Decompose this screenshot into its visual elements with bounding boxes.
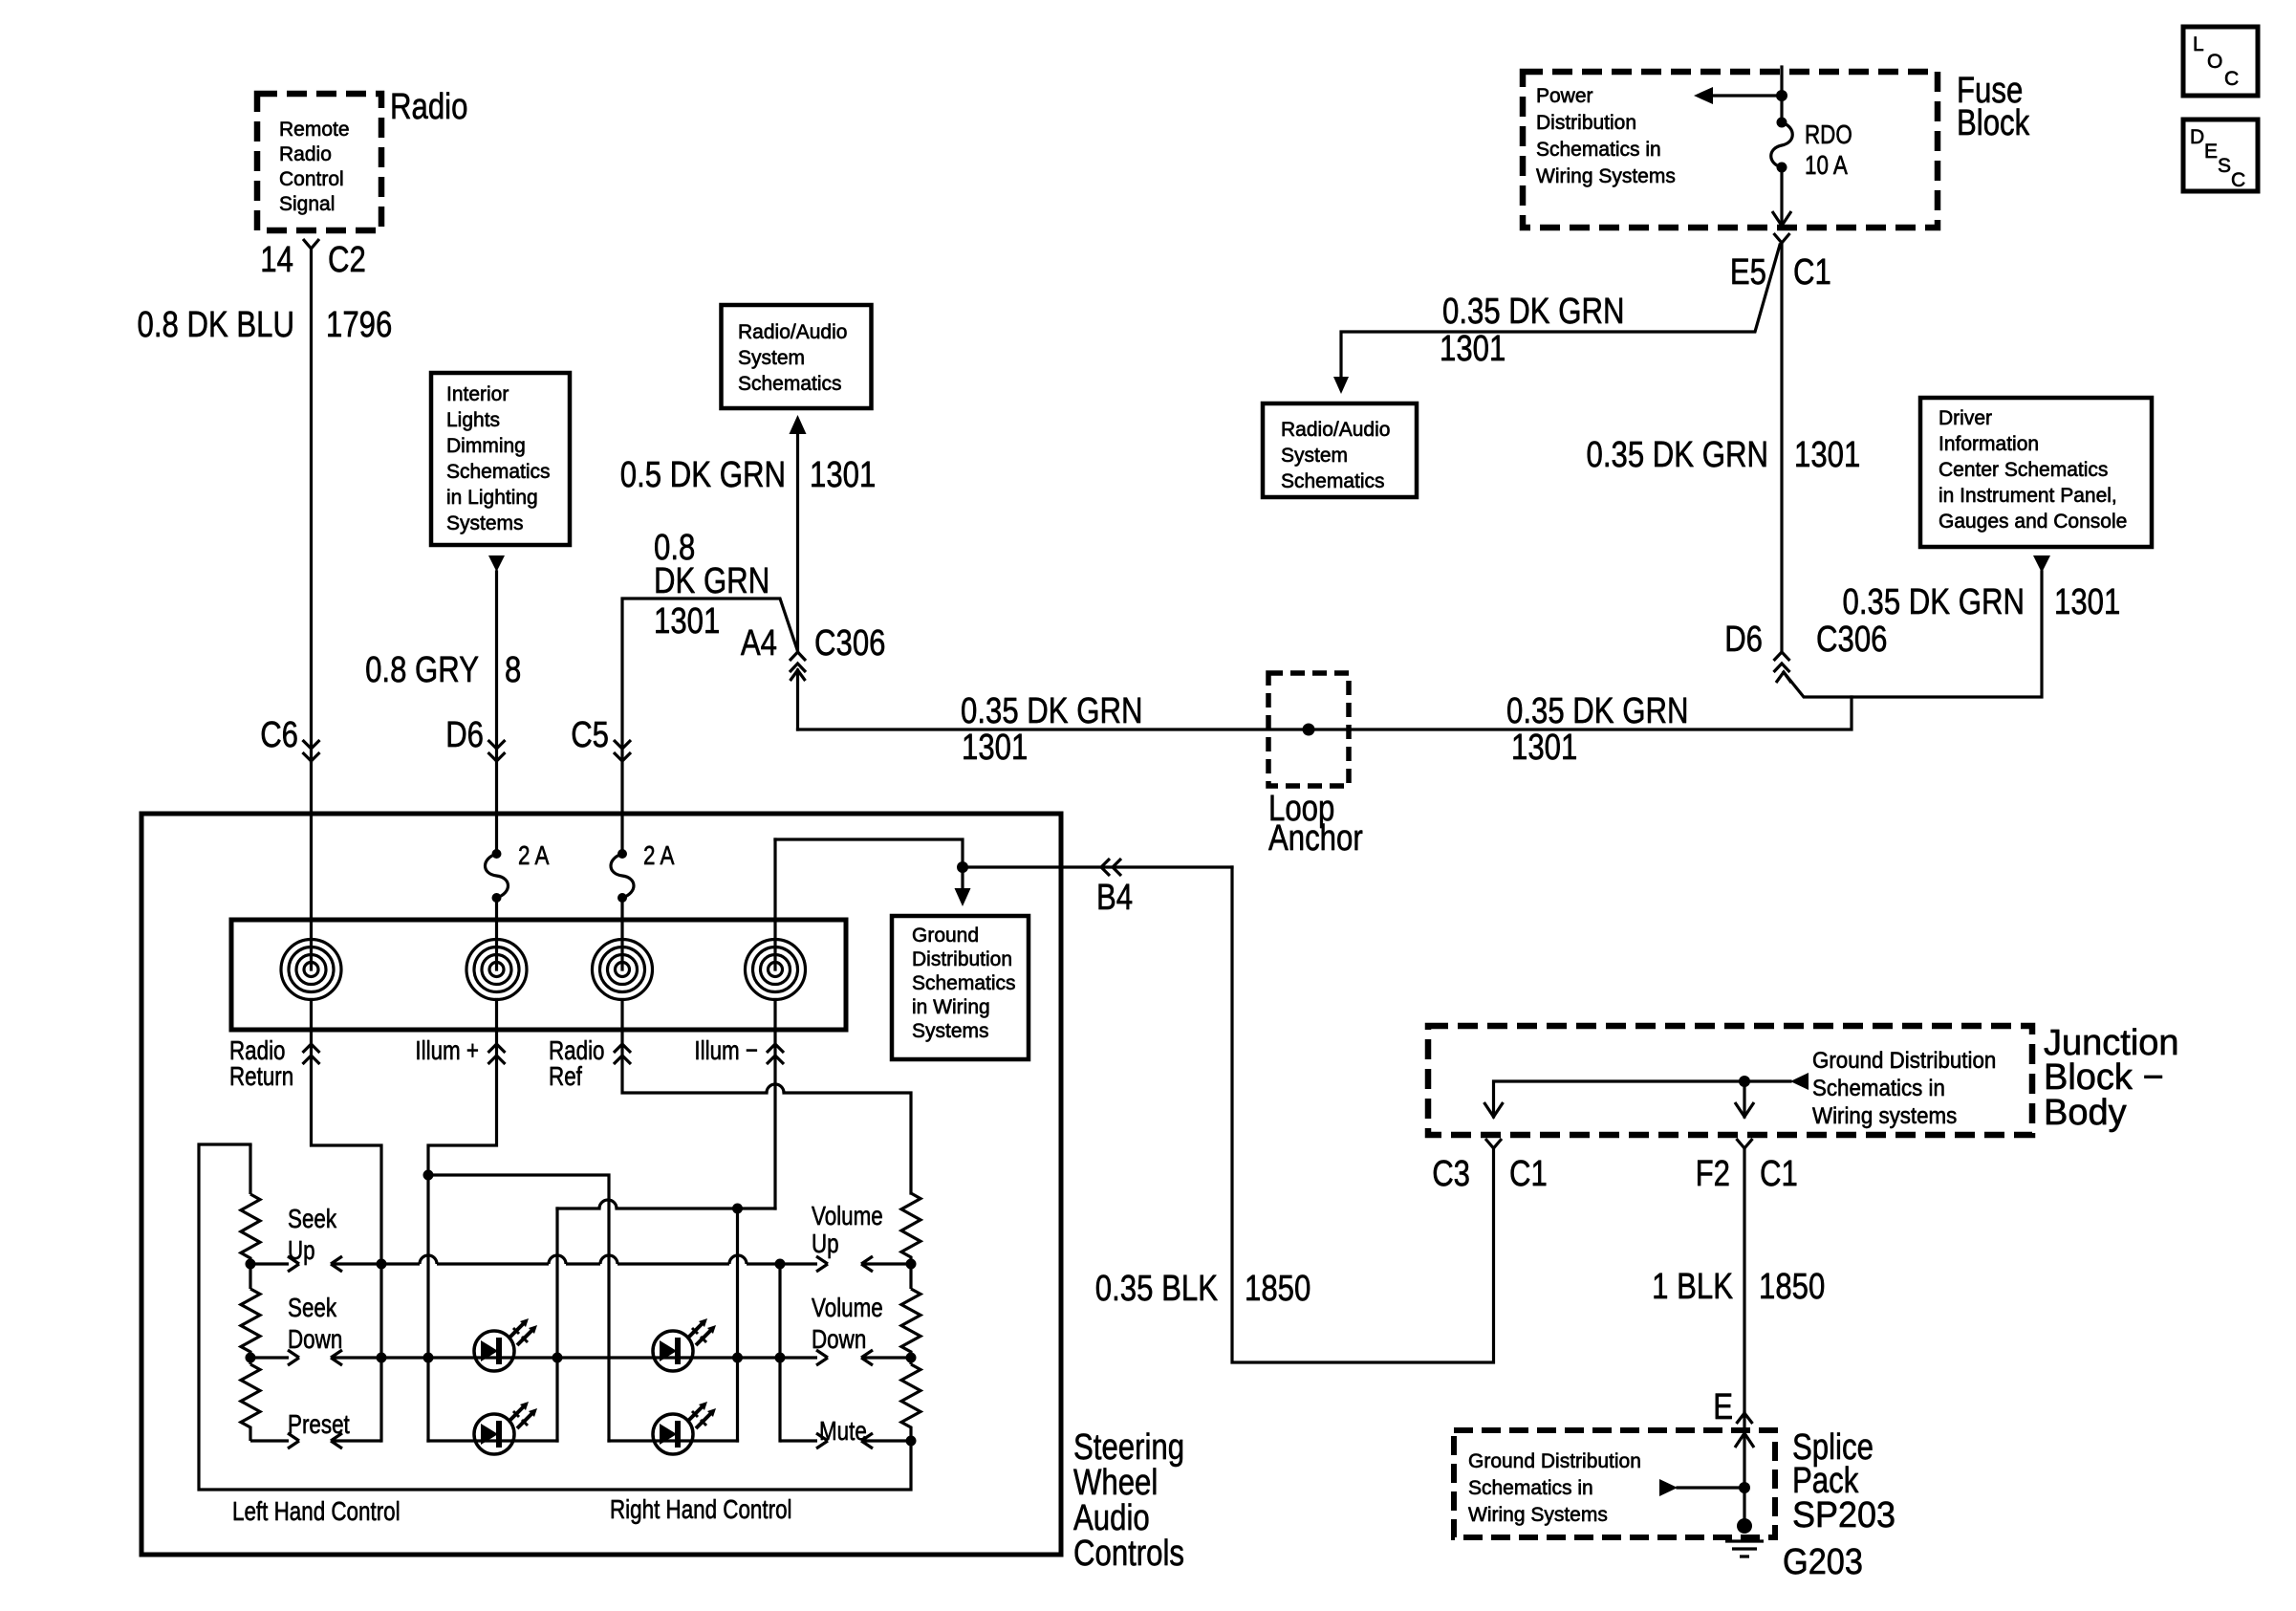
Ground Distribution Schematics box bbox=[892, 916, 1029, 1059]
svg-text:Schematics: Schematics bbox=[446, 461, 551, 483]
connector chevron radio ref bbox=[614, 1044, 631, 1064]
wire illum plus through coil 2 bbox=[495, 898, 498, 969]
connector C1 pin F2 Y symbol bbox=[1737, 1139, 1753, 1148]
svg-text:Distribution: Distribution bbox=[1536, 112, 1636, 134]
svg-text:C1: C1 bbox=[1793, 252, 1831, 293]
wire 1301 from E5 down to C306 D6 bbox=[1780, 243, 1783, 651]
svg-text:Distribution: Distribution bbox=[912, 948, 1012, 970]
svg-text:Interior: Interior bbox=[446, 383, 509, 405]
svg-text:Up: Up bbox=[812, 1229, 839, 1258]
wire 1301 from C5 to connector C306 pin A4 bbox=[622, 599, 798, 854]
LED seek down indicator bbox=[474, 1318, 537, 1371]
svg-text:0.35 DK GRN: 0.35 DK GRN bbox=[1843, 582, 2025, 622]
Junction Block - Body dashed box bbox=[1428, 1026, 2032, 1135]
wire from fuse down to E5 bbox=[1780, 167, 1783, 226]
preset row bbox=[250, 1433, 299, 1448]
coil pack box bbox=[231, 920, 846, 1030]
svg-text:D6: D6 bbox=[1724, 620, 1763, 660]
Fuse Block dashed box bbox=[1523, 72, 1938, 228]
svg-text:DK GRN: DK GRN bbox=[654, 561, 769, 601]
svg-text:Control: Control bbox=[279, 168, 344, 190]
svg-text:Right Hand Control: Right Hand Control bbox=[610, 1494, 792, 1524]
svg-text:0.8 GRY: 0.8 GRY bbox=[365, 650, 479, 690]
svg-text:Lights: Lights bbox=[446, 409, 500, 431]
svg-text:Schematics in: Schematics in bbox=[1468, 1477, 1593, 1499]
connector C1 pin E5 Y symbol bbox=[1774, 233, 1790, 243]
svg-text:0.35 DK GRN: 0.35 DK GRN bbox=[1442, 292, 1625, 332]
svg-text:0.35 DK GRN: 0.35 DK GRN bbox=[961, 691, 1143, 731]
svg-text:D6: D6 bbox=[445, 715, 484, 755]
LOC box bbox=[2183, 27, 2258, 96]
junction dot in fuse block bbox=[1776, 90, 1787, 101]
left resistor chain bbox=[241, 1144, 260, 1441]
svg-text:C306: C306 bbox=[1816, 620, 1888, 660]
wire inside junction block bbox=[1494, 1081, 1791, 1117]
Radio component dashed box bbox=[257, 94, 381, 230]
ground G203 symbol bbox=[1737, 1518, 1752, 1534]
svg-text:in Wiring: in Wiring bbox=[912, 996, 990, 1018]
svg-text:G203: G203 bbox=[1783, 1542, 1863, 1582]
svg-text:C5: C5 bbox=[571, 715, 609, 755]
svg-text:Preset: Preset bbox=[288, 1409, 350, 1439]
svg-text:Radio/Audio: Radio/Audio bbox=[738, 321, 847, 343]
svg-text:Center Schematics: Center Schematics bbox=[1939, 459, 2108, 481]
wire 1301 from driver info box to D6 C306 bbox=[1784, 572, 2042, 697]
svg-text:Controls: Controls bbox=[1073, 1534, 1184, 1574]
svg-text:Illum +: Illum + bbox=[415, 1035, 479, 1065]
open arrow down to C3 bbox=[1484, 1102, 1504, 1117]
left hand control frame bbox=[199, 1144, 911, 1490]
svg-text:Seek: Seek bbox=[288, 1204, 337, 1233]
svg-text:Dimming: Dimming bbox=[446, 435, 526, 457]
svg-text:1 BLK: 1 BLK bbox=[1652, 1267, 1733, 1307]
svg-text:E5: E5 bbox=[1730, 252, 1766, 293]
svg-text:SP203: SP203 bbox=[1792, 1495, 1895, 1535]
svg-text:1850: 1850 bbox=[1759, 1267, 1825, 1307]
svg-text:Anchor: Anchor bbox=[1268, 818, 1363, 859]
open arrow down to F2 bbox=[1735, 1102, 1754, 1117]
svg-text:Seek: Seek bbox=[288, 1293, 337, 1322]
wire to power distribution arrow bbox=[1709, 94, 1782, 97]
svg-text:1301: 1301 bbox=[1511, 728, 1577, 768]
splice E connector bbox=[1737, 1413, 1753, 1424]
connector chevron radio return bbox=[303, 1044, 320, 1064]
svg-text:Ref: Ref bbox=[549, 1061, 582, 1091]
svg-text:2 A: 2 A bbox=[518, 840, 550, 870]
svg-text:System: System bbox=[738, 347, 805, 369]
open arrow up inside splice pack bbox=[1735, 1433, 1754, 1448]
svg-text:S: S bbox=[2218, 155, 2231, 177]
svg-text:1301: 1301 bbox=[2054, 582, 2120, 622]
svg-text:Radio: Radio bbox=[390, 87, 467, 127]
connector chevron illum minus bbox=[767, 1044, 784, 1064]
svg-text:1301: 1301 bbox=[810, 455, 876, 495]
wire into splice pack bbox=[1743, 1412, 1745, 1528]
svg-text:Ground Distribution: Ground Distribution bbox=[1812, 1048, 1996, 1074]
svg-text:Wiring Systems: Wiring Systems bbox=[1536, 165, 1676, 187]
junction dots inner circuit bbox=[246, 1259, 256, 1270]
svg-text:10 A: 10 A bbox=[1805, 150, 1848, 180]
wire 1796 from radio pin 14 down to steering wheel controls bbox=[310, 249, 313, 761]
right resistor chain bbox=[901, 1193, 921, 1441]
svg-text:Block −: Block − bbox=[2044, 1057, 2164, 1098]
wire down from A4 to long 1301 run bbox=[796, 670, 799, 729]
seek down row with LEDs bbox=[250, 1350, 299, 1365]
svg-text:C6: C6 bbox=[260, 715, 298, 755]
junction dot F2 bbox=[1739, 1076, 1750, 1087]
arrow left to power distribution bbox=[1694, 87, 1713, 104]
svg-text:Power: Power bbox=[1536, 85, 1593, 107]
svg-text:0.35 DK GRN: 0.35 DK GRN bbox=[1587, 435, 1769, 475]
wire illum plus feed to led rows bbox=[428, 1175, 609, 1441]
wire from fuse block top to fuse RDO bbox=[1780, 67, 1783, 122]
svg-text:C1: C1 bbox=[1760, 1154, 1798, 1194]
volume up right contact bbox=[861, 1256, 911, 1272]
svg-text:0.35 DK GRN: 0.35 DK GRN bbox=[1506, 691, 1689, 731]
svg-text:Wiring Systems: Wiring Systems bbox=[1468, 1504, 1608, 1526]
wire B4 branch inside box bbox=[775, 839, 1232, 867]
wire branch from E5 to radio/audio schematics left bbox=[1341, 245, 1780, 382]
wire 1850 from B4 down and across bbox=[1232, 867, 1494, 1362]
svg-text:Down: Down bbox=[288, 1324, 342, 1354]
svg-text:1301: 1301 bbox=[962, 728, 1028, 768]
svg-text:F2: F2 bbox=[1696, 1154, 1730, 1194]
svg-text:1301: 1301 bbox=[1794, 435, 1860, 475]
arrow down into ground distribution box bbox=[955, 888, 971, 906]
svg-text:C: C bbox=[2231, 169, 2245, 191]
svg-text:14: 14 bbox=[260, 240, 293, 280]
svg-text:Left Hand Control: Left Hand Control bbox=[232, 1496, 401, 1526]
led bus verticals bbox=[555, 1208, 558, 1441]
hop over illum minus wire bbox=[767, 1084, 784, 1093]
arrow down into lower Radio/Audio box bbox=[1333, 377, 1349, 394]
Driver Information Center box bbox=[1920, 398, 2152, 547]
svg-text:0.5 DK GRN: 0.5 DK GRN bbox=[620, 455, 786, 495]
wire from arrow to splice bbox=[1678, 1486, 1744, 1489]
coil 2 illum plus bbox=[466, 940, 527, 1000]
svg-text:2 A: 2 A bbox=[643, 840, 675, 870]
coil 4 illum minus bbox=[746, 940, 806, 1000]
mute row bbox=[780, 1433, 828, 1448]
fuse RDO 10 A symbol bbox=[1777, 118, 1787, 128]
connector C306 pin A4 double chevron bbox=[790, 652, 806, 672]
svg-text:Ground: Ground bbox=[912, 925, 979, 947]
wire 8 from interior lights box down to illum plus coil bbox=[495, 572, 498, 854]
LED volume down indicator bbox=[653, 1318, 716, 1371]
connector C6 double chevron bbox=[303, 740, 320, 761]
svg-text:Remote: Remote bbox=[279, 119, 350, 141]
arrow to ground distribution schematics bbox=[1790, 1073, 1809, 1090]
svg-text:in Instrument Panel,: in Instrument Panel, bbox=[1939, 485, 2117, 507]
Radio/Audio System Schematics box upper bbox=[722, 305, 872, 408]
wire F2 stub bbox=[1743, 1081, 1745, 1117]
svg-text:C: C bbox=[2224, 68, 2239, 90]
svg-text:Schematics: Schematics bbox=[1281, 470, 1385, 492]
connector C306 pin D6 double chevron bbox=[1774, 652, 1790, 672]
svg-text:A4: A4 bbox=[741, 623, 777, 664]
svg-text:Ground Distribution: Ground Distribution bbox=[1468, 1450, 1641, 1472]
svg-text:Wiring systems: Wiring systems bbox=[1812, 1103, 1957, 1129]
svg-text:Audio: Audio bbox=[1073, 1498, 1150, 1538]
svg-text:Steering: Steering bbox=[1073, 1427, 1184, 1468]
Loop Anchor dashed box bbox=[1268, 673, 1349, 786]
wire radio return through coil 1 bbox=[310, 761, 313, 969]
svg-text:8: 8 bbox=[505, 650, 521, 690]
arrow up into Radio/Audio box bbox=[790, 415, 807, 434]
svg-text:1796: 1796 bbox=[326, 305, 392, 345]
coil 1 radio return bbox=[281, 940, 341, 1000]
fuse 2A on radio ref bbox=[617, 849, 627, 859]
LED mute indicator bbox=[653, 1402, 716, 1454]
wire 1850 from F2 down to splice pack bbox=[1743, 1148, 1745, 1412]
DESC box bbox=[2183, 120, 2258, 191]
svg-text:Illum −: Illum − bbox=[694, 1035, 758, 1065]
connector C5 double chevron bbox=[614, 740, 631, 761]
svg-text:1301: 1301 bbox=[1440, 329, 1505, 369]
svg-text:B4: B4 bbox=[1096, 878, 1133, 918]
svg-text:Down: Down bbox=[812, 1324, 866, 1354]
svg-text:0.8 DK BLU: 0.8 DK BLU bbox=[138, 305, 295, 345]
svg-text:Gauges and Console: Gauges and Console bbox=[1939, 511, 2127, 533]
led lower row left bbox=[428, 1439, 557, 1442]
Radio/Audio System Schematics box lower bbox=[1263, 403, 1417, 497]
svg-text:Information: Information bbox=[1939, 433, 2039, 455]
arrow up at D6 bbox=[1776, 672, 1791, 683]
svg-text:C306: C306 bbox=[814, 623, 886, 664]
svg-text:Volume: Volume bbox=[812, 1293, 883, 1322]
LED preset indicator bbox=[474, 1402, 537, 1454]
svg-text:C2: C2 bbox=[328, 240, 366, 280]
svg-text:Return: Return bbox=[229, 1061, 293, 1091]
wire illum minus through coil 4 bbox=[773, 839, 776, 969]
svg-text:1301: 1301 bbox=[654, 601, 720, 642]
wire stub to ground distribution arrow bbox=[961, 867, 964, 889]
Steering Wheel Audio Controls box bbox=[141, 814, 1061, 1555]
svg-text:Systems: Systems bbox=[446, 512, 524, 534]
svg-text:L: L bbox=[2193, 33, 2204, 55]
seek up switch row bbox=[250, 1256, 299, 1272]
connector C1 pin C3 Y symbol bbox=[1485, 1139, 1502, 1148]
svg-text:O: O bbox=[2207, 51, 2222, 73]
svg-text:RDO: RDO bbox=[1805, 120, 1852, 149]
fuse 2A on illum plus bbox=[492, 849, 502, 859]
svg-text:Radio: Radio bbox=[279, 143, 332, 165]
junction dot B4 branch bbox=[957, 861, 968, 873]
led lower row right bbox=[609, 1439, 738, 1442]
svg-text:Driver: Driver bbox=[1939, 407, 1992, 429]
svg-text:Wheel: Wheel bbox=[1073, 1463, 1158, 1503]
svg-text:Block: Block bbox=[1957, 103, 2030, 143]
Interior Lights Dimming box bbox=[431, 373, 570, 545]
svg-text:D: D bbox=[2190, 126, 2204, 148]
arrow below driver information box bbox=[2033, 555, 2050, 573]
svg-text:Schematics: Schematics bbox=[912, 972, 1016, 994]
connector B4 double chevron bbox=[1101, 859, 1121, 876]
svg-text:C1: C1 bbox=[1509, 1154, 1548, 1194]
svg-text:Radio/Audio: Radio/Audio bbox=[1281, 419, 1390, 441]
arrow up at A4 bbox=[791, 670, 806, 681]
svg-text:E: E bbox=[1713, 1387, 1733, 1427]
wire illum minus feed across bbox=[557, 1207, 775, 1209]
svg-text:Mute: Mute bbox=[819, 1416, 867, 1446]
junction dot in loop anchor bbox=[1303, 724, 1315, 736]
svg-text:System: System bbox=[1281, 445, 1348, 467]
svg-text:0.35 BLK: 0.35 BLK bbox=[1095, 1269, 1218, 1309]
svg-text:Signal: Signal bbox=[279, 193, 335, 215]
svg-text:1850: 1850 bbox=[1245, 1269, 1310, 1309]
svg-text:Schematics: Schematics bbox=[738, 373, 842, 395]
svg-text:Systems: Systems bbox=[912, 1020, 989, 1042]
wire 1301 up to Radio/Audio schematics bbox=[796, 433, 799, 651]
long wire 1301 from A4 to junction riser bbox=[798, 697, 1852, 729]
coil 3 radio ref bbox=[593, 940, 653, 1000]
arrow right inside splice pack bbox=[1659, 1479, 1678, 1496]
connector D6 double chevron bbox=[488, 740, 506, 761]
open arrow down above fuse block edge bbox=[1772, 211, 1791, 226]
svg-text:C3: C3 bbox=[1432, 1154, 1470, 1194]
svg-text:in Lighting: in Lighting bbox=[446, 487, 538, 509]
arrow from Interior Lights box down bbox=[488, 555, 505, 572]
Splice Pack SP203 dashed box bbox=[1454, 1430, 1775, 1537]
connector C2 pin 14 Y symbol bbox=[303, 239, 319, 249]
wire radio ref to right resistor chain bbox=[620, 898, 623, 969]
svg-text:Schematics in: Schematics in bbox=[1812, 1076, 1945, 1101]
junction dot splice bbox=[1739, 1482, 1750, 1493]
svg-text:Volume: Volume bbox=[812, 1201, 883, 1230]
hops on seek up row bbox=[420, 1255, 747, 1264]
connector chevron illum plus bbox=[488, 1044, 506, 1064]
svg-text:E: E bbox=[2204, 141, 2218, 163]
svg-text:Up: Up bbox=[288, 1235, 315, 1265]
svg-text:Body: Body bbox=[2044, 1093, 2127, 1133]
svg-text:Schematics in: Schematics in bbox=[1536, 139, 1661, 161]
